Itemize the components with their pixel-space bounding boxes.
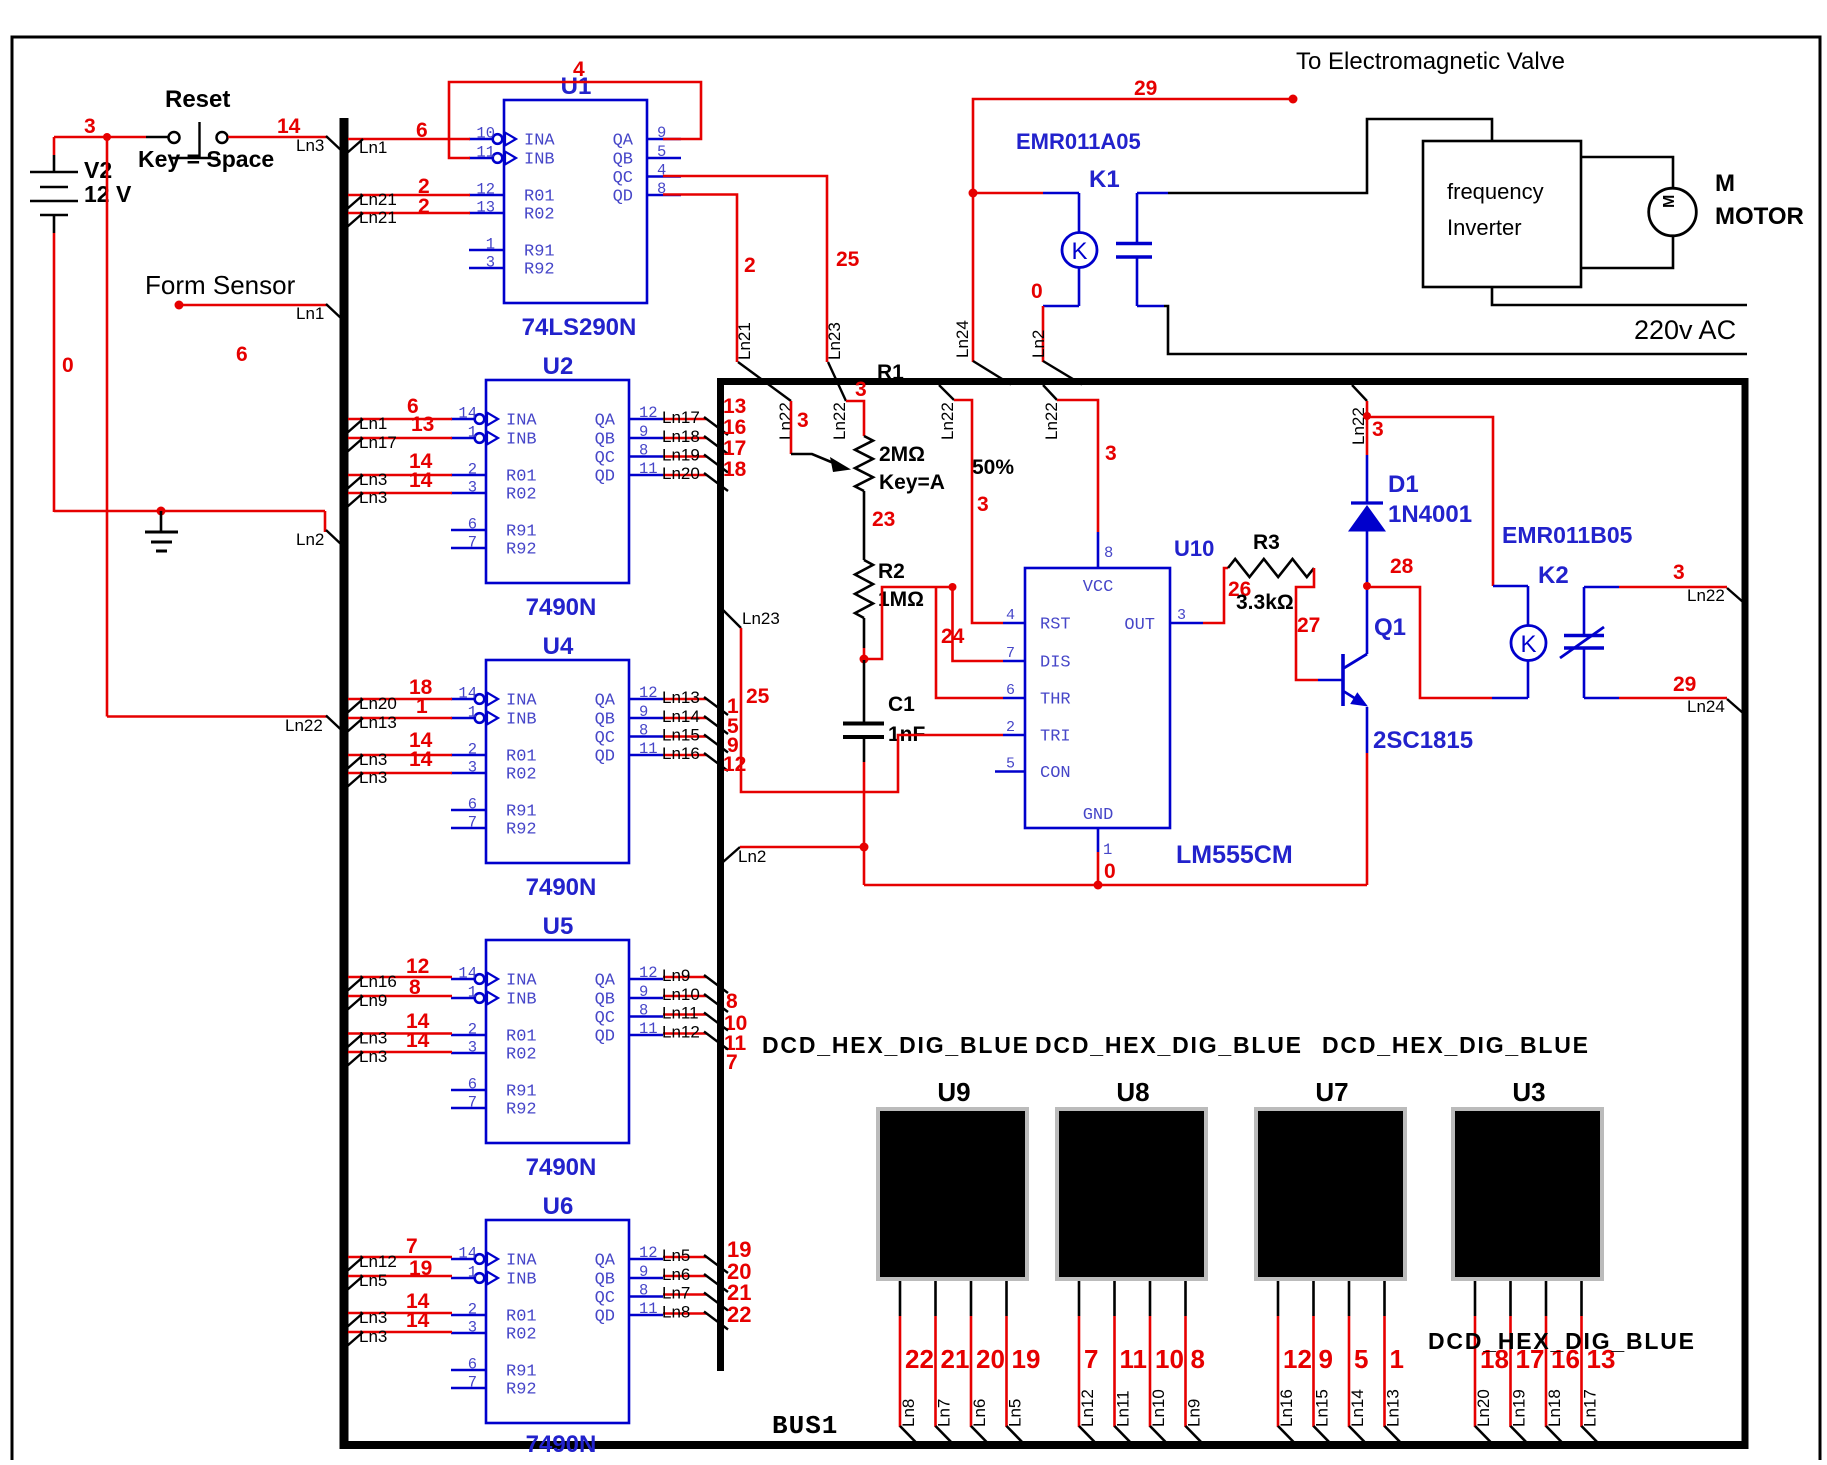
- wire Ln3: [348, 1331, 452, 1334]
- svg-text:Ln19: Ln19: [1510, 1389, 1529, 1427]
- svg-text:8: 8: [639, 442, 648, 460]
- svg-text:QD: QD: [595, 1028, 615, 1047]
- svg-text:Ln14: Ln14: [1348, 1389, 1367, 1427]
- svg-text:U10: U10: [1174, 536, 1214, 561]
- svg-text:8: 8: [639, 1282, 648, 1300]
- battery V2 12V: [53, 137, 56, 155]
- wire Ln17: [663, 418, 707, 421]
- svg-text:7: 7: [726, 1051, 738, 1074]
- svg-text:Ln9: Ln9: [359, 991, 387, 1010]
- svg-text:EMR011A05: EMR011A05: [1016, 129, 1141, 154]
- svg-text:INB: INB: [506, 991, 537, 1010]
- svg-text:1: 1: [1390, 1344, 1404, 1374]
- svg-text:7490N: 7490N: [526, 874, 597, 901]
- svg-text:To Electromagnetic Valve: To Electromagnetic Valve: [1296, 48, 1565, 75]
- svg-text:Ln17: Ln17: [359, 433, 397, 452]
- wire display pin Ln12: [1078, 1281, 1081, 1316]
- svg-text:12: 12: [476, 181, 495, 199]
- svg-text:Ln3: Ln3: [359, 768, 387, 787]
- svg-text:INB: INB: [506, 1271, 537, 1290]
- svg-text:INB: INB: [506, 711, 537, 730]
- wire battery minus down: [53, 233, 56, 512]
- wire Ln9: [348, 995, 452, 998]
- svg-text:14: 14: [409, 469, 433, 492]
- svg-text:R91: R91: [506, 1363, 537, 1382]
- wire display pin Ln9: [1184, 1281, 1187, 1316]
- wire display pin Ln18: [1545, 1281, 1548, 1316]
- svg-text:Ln17: Ln17: [1581, 1389, 1600, 1427]
- svg-text:6: 6: [1006, 682, 1015, 699]
- svg-text:Ln7: Ln7: [935, 1399, 954, 1427]
- svg-text:INA: INA: [506, 692, 537, 711]
- svg-text:8: 8: [639, 1002, 648, 1020]
- frequency inverter box: [1423, 141, 1581, 287]
- svg-text:QD: QD: [595, 748, 615, 767]
- svg-text:LM555CM: LM555CM: [1176, 841, 1293, 869]
- IC U1 74LS290N: [504, 100, 647, 303]
- svg-text:Ln22: Ln22: [285, 716, 323, 735]
- wire Ln17: [348, 437, 452, 440]
- svg-text:INA: INA: [506, 972, 537, 991]
- wire Ln3: [348, 1051, 452, 1054]
- svg-text:7: 7: [468, 814, 477, 832]
- svg-text:3: 3: [468, 1319, 477, 1337]
- wire Ln13: [348, 717, 452, 720]
- svg-text:QC: QC: [595, 729, 615, 748]
- svg-text:2: 2: [468, 1301, 477, 1319]
- wire Ln21: [348, 194, 470, 197]
- svg-text:R01: R01: [524, 188, 555, 207]
- svg-text:Reset: Reset: [165, 86, 230, 113]
- svg-text:R91: R91: [506, 803, 537, 822]
- svg-text:6: 6: [416, 119, 428, 142]
- svg-text:3: 3: [1177, 607, 1186, 624]
- wire Ln20: [348, 698, 452, 701]
- svg-text:BUS1: BUS1: [772, 1411, 838, 1441]
- svg-text:Ln7: Ln7: [662, 1284, 690, 1303]
- svg-text:11: 11: [476, 144, 495, 162]
- wire Ln19: [663, 455, 707, 458]
- svg-text:1: 1: [416, 695, 428, 718]
- svg-text:Ln20: Ln20: [359, 694, 397, 713]
- svg-text:M: M: [1661, 195, 1678, 208]
- svg-text:Ln3: Ln3: [359, 1029, 387, 1048]
- wire display pin Ln8: [899, 1281, 902, 1316]
- svg-text:3: 3: [468, 1039, 477, 1057]
- wire display pin Ln17: [1580, 1281, 1583, 1316]
- tap net3 VCC: [1043, 385, 1057, 400]
- svg-text:17: 17: [723, 437, 746, 460]
- svg-text:K: K: [1071, 238, 1087, 265]
- svg-text:Ln16: Ln16: [359, 972, 397, 991]
- svg-text:GND: GND: [1083, 806, 1114, 825]
- wire Ln1: [348, 418, 452, 421]
- pin TRI: [1003, 734, 1025, 737]
- wire display pin Ln13: [1383, 1281, 1386, 1316]
- svg-text:INB: INB: [506, 431, 537, 450]
- wire switch to bus Ln3: [228, 136, 327, 139]
- tap Ln2 left border: [723, 847, 740, 862]
- svg-text:14: 14: [406, 1029, 430, 1052]
- svg-text:Ln2: Ln2: [1029, 330, 1048, 358]
- svg-text:2: 2: [418, 195, 430, 218]
- wire Ln16: [348, 976, 452, 979]
- svg-text:16: 16: [723, 416, 746, 439]
- svg-text:12: 12: [639, 1244, 658, 1262]
- svg-text:R92: R92: [506, 541, 537, 560]
- collector wire: [1366, 586, 1369, 654]
- wire U1 QC to bus Ln23: [663, 176, 827, 362]
- svg-text:25: 25: [836, 248, 860, 271]
- svg-text:7490N: 7490N: [526, 1154, 597, 1181]
- svg-text:2SC1815: 2SC1815: [1373, 727, 1473, 754]
- svg-text:Ln11: Ln11: [662, 1004, 699, 1023]
- svg-text:QB: QB: [595, 431, 615, 450]
- svg-text:R01: R01: [506, 1308, 537, 1327]
- svg-text:THR: THR: [1040, 691, 1071, 710]
- wire Ln15: [663, 735, 707, 738]
- wire Ln3: [348, 1032, 452, 1035]
- svg-text:TRI: TRI: [1040, 728, 1071, 747]
- svg-text:3.3kΩ: 3.3kΩ: [1236, 591, 1294, 614]
- wire Ln18: [663, 437, 707, 440]
- svg-text:QB: QB: [595, 1271, 615, 1290]
- wire net 24 DIS: [953, 587, 1004, 661]
- svg-text:2: 2: [468, 741, 477, 759]
- svg-text:Ln10: Ln10: [1149, 1389, 1168, 1427]
- wire display pin Ln19: [1509, 1281, 1512, 1316]
- svg-text:Key = Space: Key = Space: [138, 146, 274, 172]
- svg-text:24: 24: [941, 625, 965, 648]
- svg-text:4: 4: [1006, 607, 1015, 624]
- svg-text:VCC: VCC: [1083, 578, 1114, 597]
- svg-text:28: 28: [1390, 555, 1414, 578]
- svg-text:5: 5: [657, 143, 666, 161]
- svg-text:K1: K1: [1089, 166, 1120, 193]
- svg-text:U5: U5: [543, 913, 574, 940]
- wire Ln10: [663, 995, 707, 998]
- svg-text:MOTOR: MOTOR: [1715, 203, 1804, 230]
- svg-text:QA: QA: [595, 1252, 616, 1271]
- svg-text:Ln23: Ln23: [742, 609, 780, 628]
- svg-text:6: 6: [468, 516, 477, 534]
- svg-text:Ln13: Ln13: [1384, 1389, 1403, 1427]
- svg-text:9: 9: [639, 1263, 648, 1281]
- diode D1 1N4001: [1366, 416, 1369, 455]
- wire Ln14: [663, 717, 707, 720]
- wire Ln24 down to bus: [972, 193, 975, 362]
- ground: [157, 507, 166, 516]
- svg-text:QD: QD: [595, 1308, 615, 1327]
- wire net 3 battery+ to bus Ln22: [106, 137, 109, 717]
- wire display pin Ln11: [1113, 1281, 1116, 1316]
- svg-text:13: 13: [476, 199, 495, 217]
- svg-text:Ln1: Ln1: [359, 138, 387, 157]
- bus BUS1 inner-left vertical: [717, 379, 724, 1371]
- tap net3 RST: [939, 385, 954, 400]
- svg-text:DCD_HEX_DIG_BLUE: DCD_HEX_DIG_BLUE: [1322, 1032, 1590, 1058]
- svg-text:11: 11: [639, 460, 658, 478]
- svg-text:R2: R2: [878, 560, 905, 583]
- svg-text:U3: U3: [1512, 1077, 1545, 1107]
- svg-text:QD: QD: [613, 188, 633, 207]
- svg-text:U6: U6: [543, 1193, 574, 1220]
- svg-text:Ln2: Ln2: [296, 530, 324, 549]
- svg-text:2: 2: [468, 461, 477, 479]
- svg-text:OUT: OUT: [1124, 616, 1155, 635]
- svg-text:INB: INB: [524, 151, 555, 170]
- pin THR: [1003, 697, 1025, 700]
- emitter wire: [1366, 707, 1369, 753]
- svg-text:U4: U4: [543, 633, 574, 660]
- svg-text:3: 3: [797, 409, 809, 432]
- svg-text:21: 21: [941, 1344, 970, 1374]
- svg-text:Ln16: Ln16: [1277, 1389, 1296, 1427]
- svg-text:12: 12: [639, 684, 658, 702]
- bus BUS1 left vertical: [340, 118, 349, 1445]
- svg-text:DCD_HEX_DIG_BLUE: DCD_HEX_DIG_BLUE: [762, 1032, 1030, 1058]
- svg-text:1MΩ: 1MΩ: [878, 588, 924, 611]
- svg-text:1: 1: [486, 236, 495, 254]
- svg-text:D1: D1: [1388, 471, 1419, 498]
- svg-text:Ln6: Ln6: [970, 1399, 989, 1427]
- wire Ln3: [348, 474, 452, 477]
- capacitor C1 1nF: [863, 660, 866, 722]
- wire wiper: [790, 401, 793, 454]
- svg-text:3: 3: [1105, 442, 1117, 465]
- svg-text:QB: QB: [613, 151, 633, 170]
- svg-text:R02: R02: [506, 766, 537, 785]
- svg-text:U7: U7: [1315, 1077, 1348, 1107]
- wire Ln20: [663, 474, 707, 477]
- svg-text:Ln22: Ln22: [938, 402, 957, 440]
- svg-text:1: 1: [468, 1264, 477, 1282]
- svg-text:9: 9: [639, 703, 648, 721]
- svg-text:K: K: [1520, 631, 1536, 658]
- svg-text:8: 8: [726, 990, 738, 1013]
- svg-text:6: 6: [468, 1356, 477, 1374]
- svg-text:K2: K2: [1538, 562, 1569, 589]
- motor M: [1649, 188, 1697, 236]
- svg-text:5: 5: [1006, 756, 1015, 773]
- pin OUT: [1170, 622, 1203, 625]
- wire display pin Ln15: [1312, 1281, 1315, 1316]
- resistor R2 1MOhm: [855, 560, 873, 618]
- svg-text:20: 20: [976, 1344, 1005, 1374]
- svg-text:2: 2: [1006, 719, 1015, 736]
- wire net29 to electromagnetic valve: [973, 99, 1293, 193]
- svg-text:Ln8: Ln8: [899, 1399, 918, 1427]
- IC U5 7490N: [486, 940, 629, 1143]
- pin GND 1: [1097, 828, 1100, 852]
- svg-text:frequency: frequency: [1447, 179, 1544, 204]
- wire net 23: [863, 491, 866, 560]
- svg-text:3: 3: [468, 759, 477, 777]
- svg-text:Ln9: Ln9: [1185, 1399, 1204, 1427]
- svg-text:8: 8: [1104, 544, 1113, 562]
- svg-text:R92: R92: [524, 261, 555, 280]
- svg-text:Ln3: Ln3: [359, 1047, 387, 1066]
- svg-text:Ln5: Ln5: [1006, 1399, 1025, 1427]
- svg-text:INA: INA: [524, 132, 555, 151]
- svg-text:2: 2: [468, 1021, 477, 1039]
- wire THR: [936, 587, 1003, 698]
- wire R2 bypass to DIS: [864, 587, 952, 659]
- svg-text:R3: R3: [1253, 531, 1280, 554]
- svg-text:Ln21: Ln21: [735, 322, 754, 360]
- svg-text:Ln17: Ln17: [662, 408, 700, 427]
- svg-text:3: 3: [468, 479, 477, 497]
- svg-text:7: 7: [1084, 1344, 1098, 1374]
- tap Ln22 pot wiper: [738, 362, 791, 401]
- wire inverter to motor bottom: [1581, 236, 1673, 268]
- svg-text:QC: QC: [613, 169, 633, 188]
- wire form sensor to bus Ln1: [179, 304, 327, 307]
- svg-text:27: 27: [1297, 614, 1320, 637]
- wire U1 QD to bus Ln21: [663, 195, 737, 363]
- svg-text:50%: 50%: [972, 456, 1014, 479]
- svg-text:29: 29: [1134, 77, 1157, 100]
- wire Ln3: [348, 754, 452, 757]
- svg-text:14: 14: [458, 1245, 477, 1263]
- svg-text:29: 29: [1673, 673, 1696, 696]
- wire display pin Ln20: [1474, 1281, 1477, 1316]
- svg-text:Ln6: Ln6: [662, 1265, 690, 1284]
- op-amp/timer U10 LM555CM: [1025, 568, 1170, 828]
- svg-text:EMR011B05: EMR011B05: [1502, 522, 1633, 548]
- display U9 DCD_HEX_DIG_BLUE: [876, 1107, 1029, 1281]
- K2 coil: [1511, 626, 1546, 661]
- svg-text:Inverter: Inverter: [1447, 215, 1522, 240]
- svg-text:12: 12: [723, 753, 746, 776]
- wire U1 QA feedback to INB net 4: [449, 82, 701, 158]
- svg-text:3: 3: [84, 115, 96, 138]
- svg-text:Ln1: Ln1: [296, 304, 324, 323]
- wire display pin Ln5: [1005, 1281, 1008, 1316]
- svg-text:11: 11: [639, 740, 658, 758]
- svg-text:Ln3: Ln3: [296, 136, 324, 155]
- svg-text:Ln3: Ln3: [359, 1327, 387, 1346]
- display U8 DCD_HEX_DIG_BLUE: [1055, 1107, 1208, 1281]
- svg-text:QA: QA: [613, 132, 634, 151]
- svg-text:QA: QA: [595, 972, 616, 991]
- wire C1 to gnd rail: [863, 762, 866, 885]
- svg-text:Ln20: Ln20: [1474, 1389, 1493, 1427]
- svg-text:10: 10: [1155, 1344, 1184, 1374]
- wire inverter to motor top: [1581, 157, 1673, 188]
- svg-text:R92: R92: [506, 1101, 537, 1120]
- svg-text:3: 3: [1372, 418, 1384, 441]
- wire K2 coil to collector net28: [1492, 697, 1528, 700]
- pin RST: [1003, 622, 1025, 625]
- wire display pin Ln10: [1149, 1281, 1152, 1316]
- svg-text:DCD_HEX_DIG_BLUE: DCD_HEX_DIG_BLUE: [1035, 1032, 1303, 1058]
- svg-text:7490N: 7490N: [526, 594, 597, 621]
- svg-text:1: 1: [468, 704, 477, 722]
- svg-text:Ln18: Ln18: [662, 427, 700, 446]
- IC U4 7490N: [486, 660, 629, 863]
- svg-text:74LS290N: 74LS290N: [522, 314, 637, 341]
- svg-text:6: 6: [468, 796, 477, 814]
- svg-text:7: 7: [468, 534, 477, 552]
- svg-text:7: 7: [468, 1094, 477, 1112]
- resistor R3 3.3kOhm: [1228, 559, 1314, 577]
- svg-text:12: 12: [1283, 1344, 1312, 1374]
- svg-text:12: 12: [639, 964, 658, 982]
- svg-text:RST: RST: [1040, 616, 1071, 635]
- wire display pin Ln16: [1277, 1281, 1280, 1316]
- svg-text:QC: QC: [595, 1009, 615, 1028]
- svg-text:R91: R91: [524, 243, 555, 262]
- svg-text:6: 6: [468, 1076, 477, 1094]
- tap Ln22 pot top: [828, 362, 846, 401]
- svg-text:Ln5: Ln5: [359, 1271, 387, 1290]
- svg-text:Ln22: Ln22: [1687, 586, 1725, 605]
- svg-text:R92: R92: [506, 1381, 537, 1400]
- svg-text:22: 22: [727, 1302, 751, 1327]
- wire inverter to 220v: [1492, 287, 1747, 305]
- wire Ln3: [348, 1312, 452, 1315]
- svg-text:6: 6: [236, 343, 248, 366]
- svg-text:11: 11: [1120, 1344, 1148, 1374]
- svg-text:1: 1: [1103, 841, 1112, 859]
- svg-text:R91: R91: [506, 1083, 537, 1102]
- wire Ln11: [663, 1013, 707, 1016]
- svg-text:Ln2: Ln2: [738, 847, 766, 866]
- wire Ln1 bus to U1 INA: [348, 138, 470, 141]
- IC U2 7490N: [486, 380, 629, 583]
- svg-text:8: 8: [639, 722, 648, 740]
- wire net 0 bottom: [54, 510, 325, 513]
- wire display pin Ln7: [934, 1281, 937, 1316]
- svg-text:Ln10: Ln10: [662, 985, 700, 1004]
- svg-text:Form Sensor: Form Sensor: [145, 270, 296, 300]
- wire GND to rail: [1097, 852, 1100, 885]
- wire Ln5: [663, 1256, 707, 1259]
- svg-text:14: 14: [458, 685, 477, 703]
- svg-text:DCD_HEX_DIG_BLUE: DCD_HEX_DIG_BLUE: [1428, 1328, 1696, 1354]
- wire Ln9: [663, 976, 707, 979]
- svg-text:QB: QB: [595, 711, 615, 730]
- svg-text:3: 3: [977, 493, 989, 516]
- svg-text:Ln5: Ln5: [662, 1246, 690, 1265]
- svg-text:18: 18: [723, 458, 747, 481]
- svg-text:U2: U2: [543, 353, 574, 380]
- wire Ln7: [663, 1293, 707, 1296]
- svg-text:3: 3: [855, 378, 867, 401]
- svg-text:Ln23: Ln23: [825, 322, 844, 360]
- bus BUS1 right vertical: [1742, 379, 1749, 1449]
- svg-text:Ln20: Ln20: [662, 464, 700, 483]
- svg-text:7: 7: [468, 1374, 477, 1392]
- svg-text:Q1: Q1: [1374, 614, 1406, 641]
- svg-text:1: 1: [468, 424, 477, 442]
- svg-text:9: 9: [1319, 1344, 1333, 1374]
- svg-text:Ln8: Ln8: [662, 1303, 690, 1322]
- svg-text:7490N: 7490N: [526, 1431, 597, 1458]
- svg-text:Ln19: Ln19: [662, 446, 700, 465]
- svg-text:13: 13: [411, 413, 434, 436]
- svg-text:Ln12: Ln12: [1078, 1389, 1097, 1427]
- svg-text:0: 0: [1104, 860, 1116, 883]
- svg-text:9: 9: [639, 983, 648, 1001]
- svg-text:8: 8: [409, 976, 421, 999]
- wire K1 contact to AC line: [1164, 306, 1747, 354]
- bus BUS1 bottom horizontal: [340, 1441, 1749, 1449]
- wire Ln12: [348, 1256, 452, 1259]
- svg-text:3: 3: [486, 254, 495, 272]
- relay contact K1: [1136, 193, 1139, 242]
